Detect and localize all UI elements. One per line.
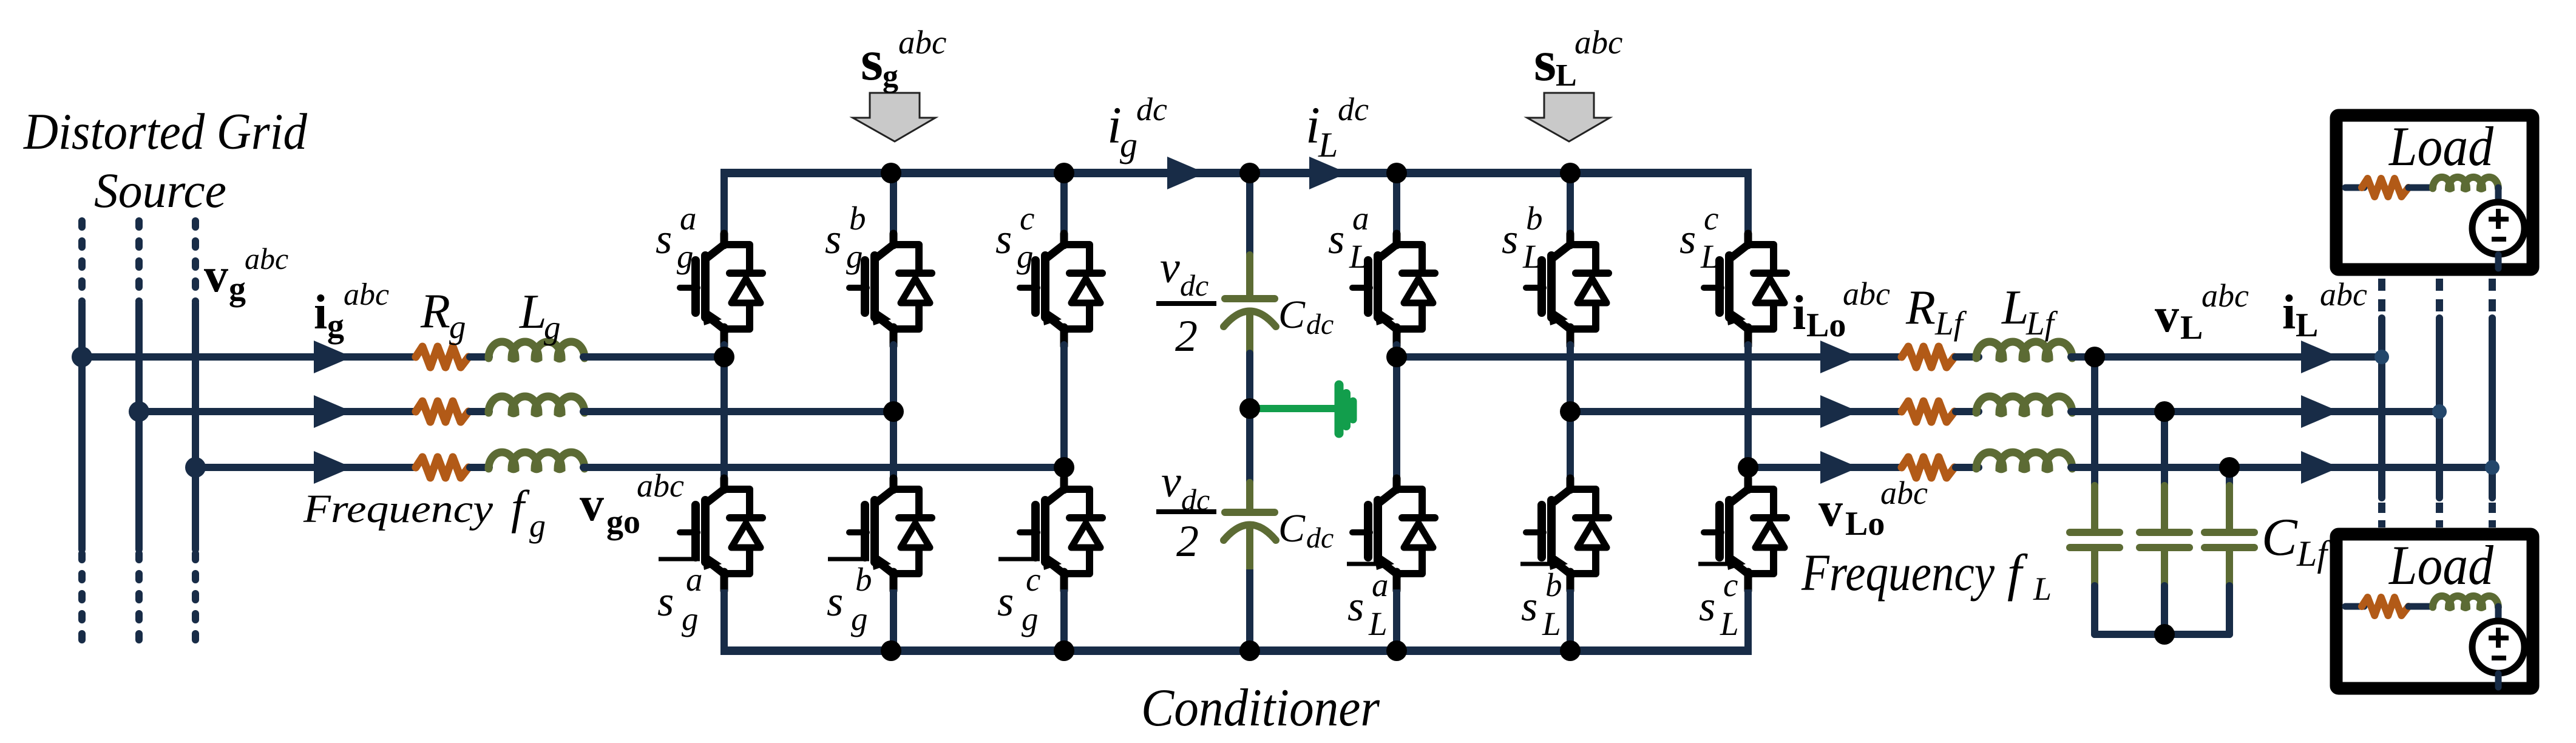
wire: load leg b to lower IGBT <box>1567 412 1574 483</box>
node: source tap phase 2 <box>129 401 149 422</box>
wire: load leg b upper <box>1567 173 1574 238</box>
wire: source phase 2 vertical <box>135 304 143 549</box>
svg-text:L: L <box>2296 307 2318 344</box>
wire: load leg b lower <box>1567 589 1574 651</box>
svg-text:s: s <box>1502 216 1518 263</box>
transistor Sg^b top (IGBT+diode) <box>849 234 932 346</box>
wire: load 2 dashed bottom <box>2436 503 2443 528</box>
wire: Cdc2 top lead <box>1246 483 1253 512</box>
label sL^b bottom switch (complement) <box>1520 562 1557 566</box>
svg-text:g: g <box>677 238 694 275</box>
svg-text:dc: dc <box>1306 308 1334 341</box>
svg-text:g: g <box>529 507 546 544</box>
svg-text:abc: abc <box>2320 276 2367 313</box>
junction: top bus x=2059 <box>1239 163 1260 183</box>
svg-text:L: L <box>1556 58 1577 93</box>
transistor SL^b bottom (IGBT+diode) <box>1526 478 1608 591</box>
svg-text:abc: abc <box>2201 277 2249 314</box>
junction: bottom bus x=2587 <box>1560 640 1581 661</box>
wire: dc column middle <box>1246 353 1253 483</box>
arrow: ig phase 1 <box>314 341 352 373</box>
svg-text:i: i <box>1792 287 1806 340</box>
resistor Rg phase 1 <box>416 347 469 367</box>
svg-text:L: L <box>1349 238 1368 275</box>
svg-text:v: v <box>2155 289 2179 342</box>
svg-text:s: s <box>995 216 1012 263</box>
wire: LLf to load phase 2 <box>2071 408 2439 415</box>
wire: CLf 3 top lead <box>2226 486 2233 529</box>
wire: source phase 3 dashed top <box>192 221 199 302</box>
wire: CLf star rail <box>2095 631 2229 638</box>
svg-text:s: s <box>656 216 672 263</box>
svg-text:a: a <box>686 561 703 598</box>
wire: load vertical 2 <box>2436 318 2443 498</box>
svg-text:abc: abc <box>1574 24 1622 61</box>
svg-text:i: i <box>314 286 327 339</box>
wire: load 1 dashed bottom <box>2378 503 2385 528</box>
transistor SL^c top (IGBT+diode) <box>1704 234 1786 346</box>
wire: output phase 1 from inverter <box>1397 353 1902 361</box>
svg-text:L: L <box>2001 281 2029 334</box>
wire: Lg to inverter leg phase 3 <box>583 464 1064 471</box>
svg-text:a: a <box>680 200 697 237</box>
arrow: ig phase 3 <box>314 451 352 484</box>
wire: Lg to inverter leg phase 2 <box>583 408 893 415</box>
wire: grid phase 1 to Rg <box>82 353 413 361</box>
junction: top bus x=2301 <box>1386 163 1407 183</box>
svg-text:b: b <box>855 561 872 598</box>
svg-text:s: s <box>1699 583 1715 630</box>
svg-text:Load: Load <box>2388 534 2494 596</box>
control arrow Sg_abc (gray block arrow) <box>853 93 935 141</box>
wire: source phase 1 dashed bottom <box>78 554 86 650</box>
wire: dc column upper <box>1246 173 1253 255</box>
arrow: iL_dc on top bus <box>1309 157 1347 189</box>
wire: CLf 1 top lead <box>2091 486 2098 529</box>
svg-text:L: L <box>1700 238 1720 275</box>
svg-text:2: 2 <box>1176 517 1199 566</box>
transistor SL^c bottom (IGBT+diode) <box>1704 478 1786 591</box>
svg-text:g: g <box>851 600 868 637</box>
svg-text:C: C <box>1278 293 1306 337</box>
wire: load 3 dashed top <box>2489 279 2496 312</box>
svg-text:a: a <box>1352 200 1369 237</box>
transistor SL^b top (IGBT+diode) <box>1526 234 1608 346</box>
wire: Cdc1 top lead <box>1246 255 1253 299</box>
node: CLf star point <box>2154 624 2175 645</box>
svg-text:2: 2 <box>1175 311 1198 361</box>
wire: CLf 2 bottom lead <box>2161 551 2168 586</box>
svg-text:dc: dc <box>1338 91 1369 127</box>
junction: bottom bus x=1753 <box>1054 640 1074 661</box>
svg-text:s: s <box>1534 29 1556 93</box>
inductor LLf phase 3 <box>1976 452 2072 469</box>
svg-text:Lf: Lf <box>2025 305 2058 342</box>
wire: grid phase 2 to Rg <box>139 408 413 415</box>
wire: RLf to LLf phase 2 <box>1956 408 1979 415</box>
wire: RLf to LLf phase 1 <box>1956 353 1979 361</box>
wire: grid leg b to phase node <box>890 345 897 412</box>
node: grid inverter phase c <box>1054 457 1074 478</box>
svg-text:L: L <box>2033 571 2052 607</box>
wire: grid leg b lower <box>890 589 897 651</box>
node: grid inverter phase b <box>883 401 904 422</box>
label sg^a bottom switch (complement) <box>659 557 700 561</box>
wire: source phase 2 dashed top <box>135 221 143 302</box>
wire: load leg a upper <box>1393 173 1400 238</box>
wire: Lg to inverter leg phase 1 <box>583 353 724 361</box>
node: grid inverter phase a <box>714 347 734 367</box>
svg-text:v: v <box>1160 243 1180 293</box>
node: source tap phase 1 <box>72 347 92 367</box>
node: dc midpoint <box>1239 398 1260 419</box>
wire: CLf leg 2 upper <box>2161 412 2168 486</box>
svg-text:s: s <box>861 28 883 92</box>
junction: bottom bus x=2059 <box>1239 640 1260 661</box>
svg-text:c: c <box>1020 200 1034 237</box>
svg-text:g: g <box>1017 238 1034 275</box>
capacitor Cdc lower <box>1225 509 1275 516</box>
wire: load leg c lower <box>1744 589 1752 651</box>
wire: grid leg c to lower IGBT <box>1060 467 1068 483</box>
svg-text:g: g <box>1022 600 1039 637</box>
svg-text:Distorted Grid: Distorted Grid <box>23 103 307 160</box>
wire: DC- bottom bus <box>720 646 1752 655</box>
wire: grid leg c lower <box>1060 589 1068 651</box>
svg-text:Load: Load <box>2388 115 2494 177</box>
svg-text:abc: abc <box>1843 276 1890 312</box>
wire: grid phase 3 to Rg <box>195 464 413 471</box>
svg-text:s: s <box>997 578 1014 625</box>
node: filter cap tap phase 1 <box>2084 347 2105 367</box>
wire: Rg to Lg phase 3 <box>470 464 489 471</box>
wire: CLf leg 2 lower <box>2161 586 2168 634</box>
junction: top bus x=1468 <box>881 163 901 183</box>
wire: load vertical 3 <box>2489 318 2496 498</box>
arrow: ig_dc on top bus <box>1167 157 1205 189</box>
svg-text:v: v <box>204 249 228 302</box>
svg-text:L: L <box>1542 605 1561 642</box>
svg-text:s: s <box>657 578 674 625</box>
svg-text:g: g <box>449 308 466 345</box>
transistor SL^a bottom (IGBT+diode) <box>1352 478 1435 591</box>
svg-text:s: s <box>1347 583 1364 630</box>
transistor Sg^a top (IGBT+diode) <box>680 234 762 346</box>
wire: CLf leg 1 lower <box>2091 586 2098 634</box>
wire: Rg to Lg phase 1 <box>470 353 489 361</box>
wire: load 3 dashed bottom <box>2489 503 2496 528</box>
wire: Cdc1 bottom lead <box>1246 314 1253 353</box>
svg-text:L: L <box>1522 238 1542 275</box>
wire: load leg c to phase node <box>1744 345 1752 467</box>
svg-text:g: g <box>327 307 344 345</box>
svg-text:g: g <box>883 59 898 93</box>
arrow: iLo phase 3 <box>1820 451 1859 484</box>
svg-text:Conditioner: Conditioner <box>1141 679 1380 738</box>
inductor Lg phase 3 <box>489 452 585 469</box>
transistor Sg^b bottom (IGBT+diode) <box>849 478 932 591</box>
resistor Rg phase 3 <box>416 457 469 478</box>
inductor LLf phase 2 <box>1976 396 2072 413</box>
svg-text:abc: abc <box>1880 475 1928 511</box>
arrow: iL phase 3 <box>2301 451 2339 484</box>
svg-text:C: C <box>2262 508 2298 567</box>
node: filter cap tap phase 3 <box>2219 457 2240 478</box>
transistor Sg^c bottom (IGBT+diode) <box>1020 478 1102 591</box>
transistor SL^a top (IGBT+diode) <box>1352 234 1435 346</box>
arrow: iLo phase 1 <box>1820 341 1859 373</box>
svg-text:R: R <box>420 285 450 338</box>
svg-text:g: g <box>1120 125 1137 165</box>
wire: LLf to load phase 3 <box>2071 464 2492 471</box>
svg-text:R: R <box>1905 281 1936 334</box>
wire: load leg a lower <box>1393 589 1400 651</box>
wire: load 1 dashed top <box>2378 279 2385 312</box>
svg-text:c: c <box>1026 561 1040 598</box>
resistor RLf phase 1 <box>1902 347 1954 367</box>
label sL^a bottom switch (complement) <box>1347 562 1383 566</box>
wire: dc column lower <box>1246 569 1253 651</box>
svg-text:abc: abc <box>245 242 288 276</box>
resistor Rg phase 2 <box>416 401 469 422</box>
transistor Sg^a bottom (IGBT+diode) <box>680 478 762 591</box>
capacitor Cdc upper <box>1225 295 1275 302</box>
svg-text:dc: dc <box>1306 522 1334 554</box>
svg-text:L: L <box>1318 125 1338 165</box>
load box top <box>2336 115 2533 270</box>
transistor Sg^c top (IGBT+diode) <box>1020 234 1102 346</box>
svg-text:g: g <box>544 309 561 346</box>
svg-text:f: f <box>511 481 530 534</box>
svg-text:abc: abc <box>344 277 389 312</box>
svg-text:b: b <box>849 200 866 237</box>
svg-text:abc: abc <box>637 467 684 504</box>
svg-text:g: g <box>682 600 699 637</box>
svg-text:a: a <box>1372 566 1389 603</box>
wire: grid leg a to phase node <box>720 345 728 357</box>
wire: grid leg a upper <box>720 173 728 238</box>
node: load inverter phase b <box>1560 401 1581 422</box>
wire: CLf leg 3 upper <box>2226 467 2233 486</box>
wire: grid leg c upper <box>1060 173 1068 238</box>
svg-text:v: v <box>1818 483 1843 537</box>
wire: CLf leg 1 upper <box>2091 357 2098 486</box>
svg-text:L: L <box>1368 605 1388 642</box>
capacitor CLf phase 1 <box>2070 529 2120 536</box>
wire: CLf 3 bottom lead <box>2226 551 2233 586</box>
wire: source phase 1 vertical <box>78 304 86 549</box>
wire: LLf to load phase 1 <box>2071 353 2382 361</box>
svg-text:v: v <box>580 478 604 531</box>
node: load inverter phase c <box>1738 457 1758 478</box>
svg-text:L: L <box>1720 605 1739 642</box>
node: load inverter phase a <box>1386 347 1407 367</box>
wire: Cdc2 bottom lead <box>1246 528 1253 569</box>
capacitor CLf phase 2 <box>2140 529 2189 536</box>
inductor Lg phase 1 <box>489 342 585 359</box>
svg-text:s: s <box>827 578 843 625</box>
wire: RLf to LLf phase 3 <box>1956 464 1979 471</box>
label sg^c bottom switch (complement) <box>998 557 1040 561</box>
svg-text:Lo: Lo <box>1806 307 1846 344</box>
svg-text:go: go <box>606 503 640 541</box>
label sL^c bottom switch (complement) <box>1698 562 1735 566</box>
inductor LLf phase 1 <box>1976 342 2072 359</box>
svg-text:g: g <box>846 238 863 275</box>
wire: source phase 1 dashed top <box>78 221 86 302</box>
svg-text:g: g <box>229 270 246 308</box>
svg-text:abc: abc <box>898 24 946 61</box>
wire: source phase 3 vertical <box>192 304 199 549</box>
load box bottom <box>2336 534 2533 688</box>
svg-text:Frequency: Frequency <box>1801 543 1995 602</box>
wire: load leg c to lower IGBT <box>1744 467 1752 483</box>
wire: grid leg b to lower IGBT <box>890 412 897 483</box>
svg-text:v: v <box>1161 457 1181 507</box>
wire: load leg c upper <box>1744 173 1752 238</box>
arrow: iL phase 2 <box>2301 395 2339 428</box>
svg-text:Frequency: Frequency <box>303 487 493 531</box>
arrow: ig phase 2 <box>314 395 352 428</box>
wire: Rg to Lg phase 2 <box>470 408 489 415</box>
junction: top bus x=1753 <box>1054 163 1074 183</box>
svg-text:b: b <box>1526 200 1543 237</box>
wire: CLf 2 top lead <box>2161 486 2168 529</box>
capacitor CLf phase 3 <box>2205 529 2254 536</box>
node: load connection phase 3 <box>2485 460 2500 475</box>
inductor Lg phase 2 <box>489 396 585 413</box>
svg-text:b: b <box>1545 566 1562 603</box>
wire: source phase 2 dashed bottom <box>135 554 143 650</box>
svg-text:dc: dc <box>1180 268 1208 302</box>
svg-text:Lf: Lf <box>2296 534 2331 574</box>
arrow: iL phase 1 <box>2301 341 2339 373</box>
node: filter cap tap phase 2 <box>2154 401 2175 422</box>
resistor RLf phase 3 <box>1902 457 1954 478</box>
svg-text:s: s <box>1679 216 1696 263</box>
svg-text:C: C <box>1278 506 1306 551</box>
wire: grid leg a lower <box>720 589 728 651</box>
svg-text:s: s <box>825 216 841 263</box>
wire: load leg a to phase node <box>1393 345 1400 357</box>
svg-text:f: f <box>2007 543 2028 602</box>
node: load connection phase 1 <box>2374 350 2389 364</box>
wire: CLf 1 bottom lead <box>2091 551 2098 586</box>
wire: load vertical 1 <box>2378 318 2385 498</box>
label sg^b bottom switch (complement) <box>828 557 869 561</box>
svg-text:i: i <box>2282 286 2296 339</box>
wire: grid leg c to phase node <box>1060 345 1068 467</box>
junction: top bus x=2587 <box>1560 163 1581 183</box>
wire: load leg a to lower IGBT <box>1393 357 1400 483</box>
ground (dc midpoint, green) <box>1250 405 1338 412</box>
svg-text:s: s <box>1521 583 1537 630</box>
wire: grid leg b upper <box>890 173 897 238</box>
svg-text:c: c <box>1704 200 1718 237</box>
node: load connection phase 2 <box>2432 404 2447 419</box>
wire: CLf leg 3 lower <box>2226 586 2233 634</box>
wire: load leg b to phase node <box>1567 345 1574 412</box>
junction: bottom bus x=2301 <box>1386 640 1407 661</box>
svg-text:L: L <box>519 285 547 339</box>
wire: output phase 2 from inverter <box>1570 408 1902 415</box>
wire: source phase 3 dashed bottom <box>192 554 199 650</box>
control arrow SL_abc (gray block arrow) <box>1527 93 1610 141</box>
wire: load 2 dashed top <box>2436 279 2443 312</box>
junction: bottom bus x=1468 <box>881 640 901 661</box>
arrow: iLo phase 2 <box>1820 395 1859 428</box>
wire: output phase 3 from inverter <box>1748 464 1902 471</box>
svg-text:L: L <box>2180 309 2203 347</box>
svg-text:c: c <box>1723 566 1738 603</box>
svg-text:Lo: Lo <box>1845 505 1885 543</box>
node: source tap phase 3 <box>185 457 206 478</box>
wire: grid leg a to lower IGBT <box>720 357 728 483</box>
wire: DC+ top bus <box>720 169 1752 177</box>
svg-text:s: s <box>1328 216 1344 263</box>
resistor RLf phase 2 <box>1902 401 1954 422</box>
svg-text:Lf: Lf <box>1934 305 1967 342</box>
svg-text:dc: dc <box>1136 91 1167 127</box>
svg-text:Source: Source <box>94 163 226 218</box>
